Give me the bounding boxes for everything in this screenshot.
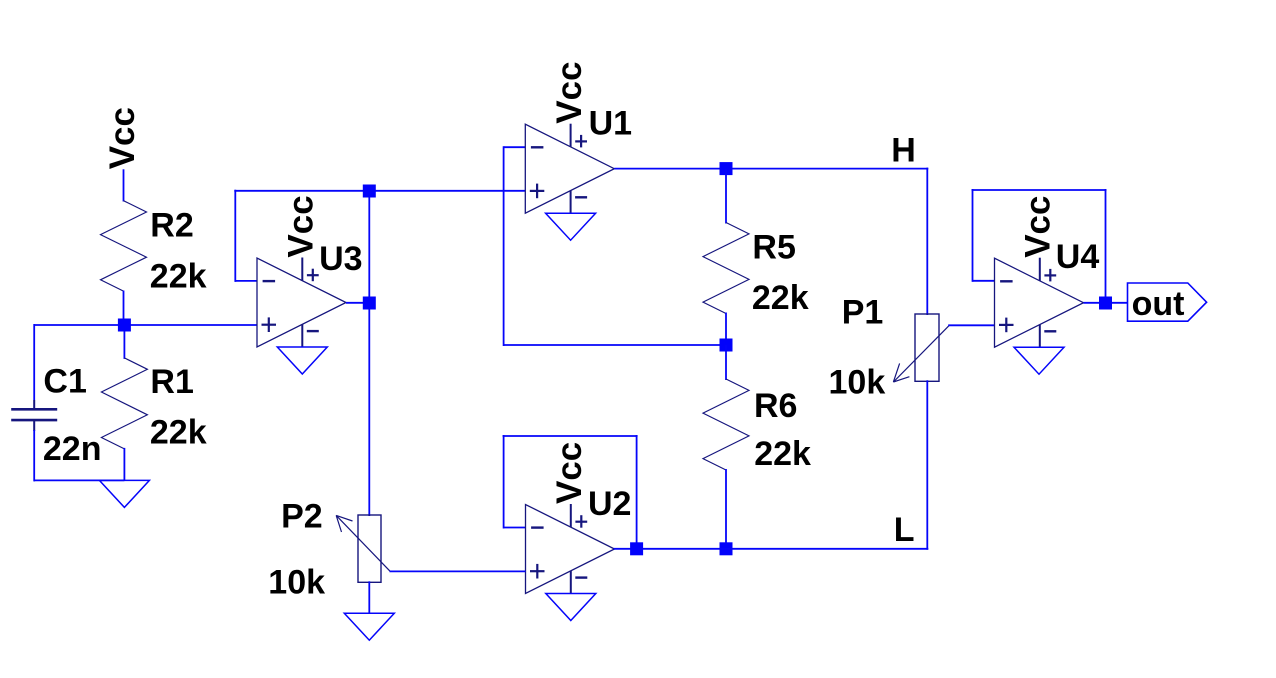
wire node A to C1	[33, 324, 35, 400]
svg-text:22k: 22k	[754, 435, 811, 473]
wire U1 inverting stub	[504, 146, 526, 148]
svg-text:H: H	[891, 132, 916, 170]
svg-text:Vcc: Vcc	[550, 61, 589, 123]
wire U3 feedback vertical	[234, 190, 236, 282]
svg-text:P1: P1	[842, 294, 884, 332]
wire P2 bottom	[368, 581, 370, 613]
svg-text:L: L	[894, 511, 915, 549]
svg-text:U3: U3	[319, 240, 362, 278]
wire U4 feedback right vertical	[1105, 189, 1107, 303]
svg-text:22k: 22k	[752, 279, 809, 317]
capacitor C1	[11, 400, 57, 431]
svg-text:out: out	[1132, 285, 1185, 323]
wire U3 output	[346, 302, 369, 304]
node C junction (U3 output)	[363, 297, 376, 310]
svg-text:R2: R2	[150, 206, 193, 244]
wire U3 inverting stub	[235, 280, 257, 282]
svg-text:22k: 22k	[150, 413, 207, 451]
wire U4 output	[1084, 302, 1128, 304]
node H junction (U4 out)	[1099, 297, 1112, 310]
wire P1 wiper tap	[948, 324, 994, 326]
wire mid vertical net	[368, 190, 370, 516]
resistor R6	[703, 379, 749, 470]
svg-text:Vcc: Vcc	[1018, 196, 1057, 258]
svg-text:Vcc: Vcc	[550, 442, 589, 504]
wire Vcc to R2	[123, 169, 125, 201]
svg-text:22n: 22n	[43, 430, 102, 468]
op-amp U4	[995, 258, 1084, 348]
node A junction	[118, 319, 131, 332]
svg-text:10k: 10k	[829, 364, 886, 402]
wire R2 to node A	[123, 291, 125, 326]
wire U4 inverting stub	[973, 280, 995, 282]
wire ground run horizontal	[34, 479, 124, 481]
ground (C1/R1)	[99, 480, 149, 507]
wire U1 output / H net	[614, 168, 928, 170]
wire C1 to ground run	[33, 430, 35, 481]
ground (U3)	[277, 347, 327, 374]
wire H net vertical	[926, 168, 928, 315]
wire U1 feedback vertical	[503, 146, 505, 346]
wire node D to R5	[725, 169, 727, 224]
ground (P2)	[344, 613, 394, 640]
ground (U1)	[546, 213, 596, 240]
wire P2 wiper tap	[390, 570, 526, 572]
svg-text:10k: 10k	[268, 564, 325, 602]
wire P1 bottom to L net	[926, 380, 928, 550]
node B junction (top net tap)	[363, 185, 376, 198]
wire node A row	[34, 324, 257, 326]
svg-text:R1: R1	[150, 363, 193, 401]
svg-text:Vcc: Vcc	[103, 107, 142, 169]
node E junction (R5/R6)	[720, 339, 733, 352]
wire U4 feedback top	[972, 189, 1107, 191]
wire U1 feedback bottom	[504, 344, 726, 346]
wire R1 to ground	[123, 448, 125, 481]
potentiometer P2	[336, 515, 390, 582]
resistor R2	[101, 201, 147, 291]
potentiometer P1	[893, 314, 949, 382]
svg-text:C1: C1	[43, 362, 86, 400]
svg-text:22k: 22k	[150, 258, 207, 296]
wire U2 feedback top	[503, 435, 638, 437]
ground (U2)	[546, 594, 596, 621]
op-amp U1	[525, 124, 614, 214]
node F junction (R6 bottom)	[720, 542, 733, 555]
wire U2 feedback right vertical	[636, 435, 638, 549]
node G junction (U2 out)	[630, 542, 643, 555]
node D junction (U1 out)	[720, 162, 733, 175]
svg-text:U1: U1	[589, 105, 632, 143]
output flag out	[1128, 283, 1207, 321]
resistor R5	[703, 223, 749, 314]
wire node E to R6	[725, 345, 727, 380]
wire U4 feedback left vertical	[972, 189, 974, 282]
wire U2 feedback left vertical	[503, 435, 505, 529]
ground (U4)	[1014, 347, 1064, 374]
resistor R1	[101, 358, 147, 449]
wire U2 output / L net	[614, 548, 929, 550]
svg-text:U4: U4	[1056, 238, 1100, 276]
wire top net	[234, 190, 525, 192]
op-amp U2	[526, 504, 615, 594]
svg-text:Vcc: Vcc	[282, 195, 321, 257]
wire R6 to L net	[725, 469, 727, 549]
op-amp U3	[257, 258, 346, 348]
svg-text:R6: R6	[754, 387, 797, 425]
wire U2 inverting stub	[504, 527, 526, 529]
svg-text:R5: R5	[752, 229, 795, 267]
wire node A to R1	[123, 325, 125, 359]
svg-text:P2: P2	[281, 498, 323, 536]
svg-text:U2: U2	[588, 485, 631, 523]
wire R5 to node E	[725, 313, 727, 346]
